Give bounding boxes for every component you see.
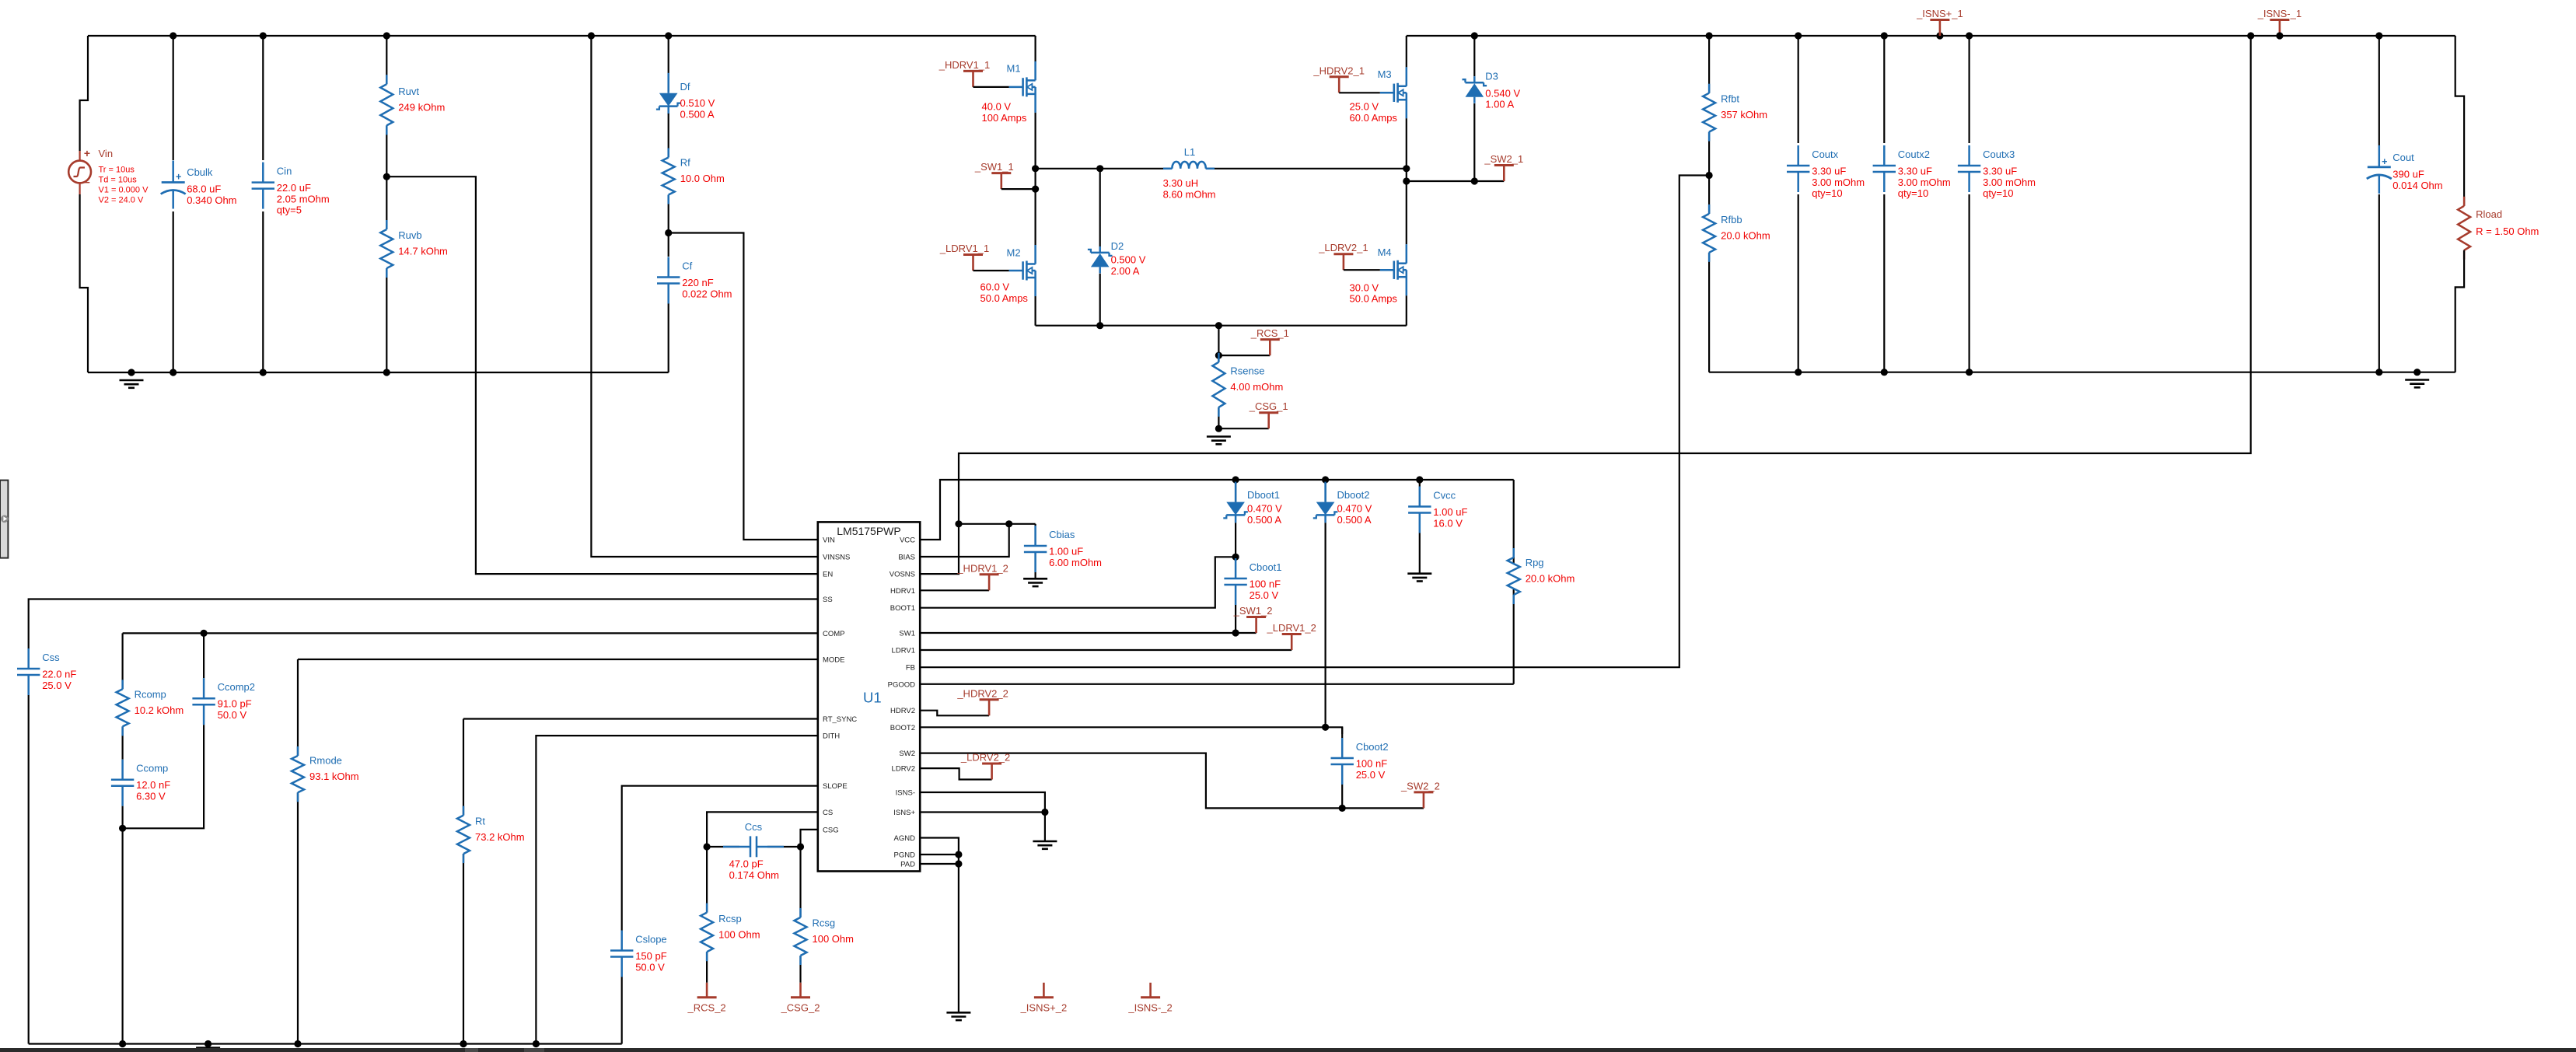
node SW2-Cboot2 junction [1339,805,1346,812]
svg-text:ISNS+: ISNS+ [893,809,915,817]
svg-text:FB: FB [906,664,915,673]
svg-text:40.0 V: 40.0 V [982,101,1012,113]
svg-text:3.30 uF: 3.30 uF [1983,166,2017,177]
svg-text:60.0 Amps: 60.0 Amps [1350,112,1398,124]
svg-text:357 kOhm: 357 kOhm [1721,109,1767,121]
wire SW2 node stub [1407,169,1505,181]
svg-text:Css: Css [42,652,60,663]
label Rt [475,815,525,843]
node D2 top junction [1096,165,1103,172]
label D3 [1485,70,1520,110]
svg-text:73.2 kOhm: 73.2 kOhm [475,831,525,843]
svg-text:_SW1_1: _SW1_1 [974,161,1014,173]
svg-text:0.540 V: 0.540 V [1485,88,1520,100]
svg-text:Dboot2: Dboot2 [1337,489,1370,501]
node CSG junction [1215,425,1222,432]
label Css [42,652,76,691]
svg-text:Coutx2: Coutx2 [1898,149,1930,160]
wire EN net to IC [386,176,818,574]
label Rfbb [1721,214,1770,242]
net flag _LDRV1_1 [939,243,1009,271]
svg-text:14.7 kOhm: 14.7 kOhm [398,246,448,257]
svg-text:0.470 V: 0.470 V [1337,503,1372,515]
svg-text:50.0 V: 50.0 V [635,961,665,973]
wire input VIN top rail [88,35,1036,37]
label M1 [982,63,1027,124]
svg-text:U1: U1 [863,690,882,706]
net flag _LDRV2_1 [1318,242,1380,270]
node output ground junctions [1795,369,2420,376]
svg-text:100 Ohm: 100 Ohm [718,928,760,940]
svg-text:50.0 V: 50.0 V [218,709,247,721]
svg-text:qty=5: qty=5 [277,204,302,216]
node BOOT2 junction [1322,724,1329,731]
label Rmode [309,755,359,783]
svg-text:+: + [84,147,90,159]
wire PGOOD net [920,683,1514,685]
svg-text:50.0 Amps: 50.0 Amps [1350,293,1398,305]
transistor M4 [1380,181,1407,326]
svg-text:ISNS-: ISNS- [896,789,915,798]
net flag _HDRV1_2 [956,562,1008,590]
svg-text:_ISNS-_1: _ISNS-_1 [2257,8,2302,19]
svg-text:Dboot1: Dboot1 [1247,489,1280,501]
label Cvcc [1433,490,1467,529]
label Ccs [729,821,779,881]
label M2 [980,247,1029,304]
wire Rcomp branch to bus [122,828,124,1043]
wire ground bus [29,1043,622,1044]
svg-text:_HDRV2_1: _HDRV2_1 [1312,65,1365,76]
diode Dboot1 [1223,480,1248,557]
net flag _ISNS-_1 [2257,8,2302,40]
label U1 [863,690,882,706]
svg-text:CS: CS [823,809,833,817]
svg-text:Tr = 10us: Tr = 10us [99,166,135,175]
svg-text:25.0 V: 25.0 V [42,680,72,691]
svg-text:68.0 uF: 68.0 uF [187,183,221,195]
svg-text:3.00 mOhm: 3.00 mOhm [1983,176,2036,188]
svg-text:_LDRV2_1: _LDRV2_1 [1318,242,1368,253]
svg-text:VCC: VCC [900,536,915,545]
ui bottom taskbar [0,1048,2576,1052]
label Coutx3 [1983,149,2036,199]
svg-text:V1 = 0.000 V: V1 = 0.000 V [99,186,149,195]
svg-text:_RCS_1: _RCS_1 [1250,327,1289,339]
svg-text:_ISNS-_2: _ISNS-_2 [1127,1001,1172,1013]
node SW1 stub junction [1032,186,1039,193]
net flag _LDRV2_2 [960,752,1010,780]
svg-text:MODE: MODE [823,656,845,665]
svg-text:Ruvt: Ruvt [398,86,419,97]
svg-text:_ISNS+_1: _ISNS+_1 [1916,8,1963,19]
svg-text:1.00 uF: 1.00 uF [1049,546,1083,557]
svg-text:VOSNS: VOSNS [890,571,915,579]
wire ISNS+ pin net [920,813,1045,842]
svg-text:0.500 V: 0.500 V [1111,254,1146,266]
wire CS net [707,812,818,847]
svg-text:VIN: VIN [823,536,835,545]
wire SS net [29,599,818,646]
svg-text:Cvcc: Cvcc [1433,490,1456,502]
label Ruvb [398,229,448,257]
svg-text:HDRV2: HDRV2 [890,707,915,715]
svg-text:SW2: SW2 [899,750,915,758]
svg-text:4.00 mOhm: 4.00 mOhm [1230,381,1283,393]
svg-text:Cboot2: Cboot2 [1356,741,1389,753]
capacitor Cbias [1024,524,1047,579]
svg-text:60.0 V: 60.0 V [980,281,1010,293]
label Coutx2 [1898,149,1951,199]
svg-text:SLOPE: SLOPE [823,782,848,791]
svg-text:_ISNS+_2: _ISNS+_2 [1020,1001,1068,1013]
svg-text:SS: SS [823,596,833,604]
svg-text:M2: M2 [1007,247,1021,259]
svg-text:LDRV1: LDRV1 [892,647,915,655]
label Rf [680,157,725,185]
svg-text:25.0 V: 25.0 V [1250,589,1279,601]
svg-text:_SW2_2: _SW2_2 [1400,780,1440,792]
label Rcsp [718,913,760,941]
svg-text:100 Ohm: 100 Ohm [813,933,854,945]
svg-text:50.0 Amps: 50.0 Amps [980,292,1029,304]
svg-text:3.30 uF: 3.30 uF [1812,166,1846,177]
svg-text:0.014 Ohm: 0.014 Ohm [2392,180,2442,191]
svg-text:47.0 pF: 47.0 pF [729,858,764,870]
wire BOOT1 net [920,557,1236,607]
node VCC rail junctions [1232,476,1424,483]
node BIAS riser junction [1005,520,1012,527]
svg-text:D3: D3 [1485,70,1498,82]
svg-text:qty=10: qty=10 [1898,187,1928,199]
svg-text:22.0 uF: 22.0 uF [277,182,311,194]
svg-text:_HDRV1_2: _HDRV1_2 [956,562,1008,574]
svg-text:100 Amps: 100 Amps [982,112,1027,124]
label M4 [1350,246,1398,305]
svg-text:Df: Df [680,81,690,93]
node Ruvt-Ruvb junction [383,173,390,180]
svg-text:Ccomp2: Ccomp2 [218,681,255,693]
wire SW1 node [1036,169,1407,189]
svg-text:R = 1.50 Ohm: R = 1.50 Ohm [2476,225,2539,237]
svg-text:PAD: PAD [900,861,915,869]
wire Rsense RCS node [1218,326,1270,355]
resistor Ruvb [380,176,393,372]
label Coutx [1812,149,1865,199]
svg-text:_HDRV2_2: _HDRV2_2 [956,687,1008,699]
net flag _SW2_2 [1400,780,1440,808]
label Cout [2392,152,2442,191]
wire LDRV1 pin row [920,649,1291,651]
wire SW2 pin net [920,753,1424,809]
svg-text:Ruvb: Ruvb [398,229,421,241]
net flag _RCS_1 [1250,327,1289,355]
svg-text:Vin: Vin [99,148,114,159]
wire output VOUT top rail [1407,35,2455,37]
wire input ground rail [88,372,669,373]
wire power bottom rail [1036,325,1407,327]
svg-text:3.30 uH: 3.30 uH [1163,177,1199,189]
node Rf-Cf junction [665,229,672,236]
svg-text:M4: M4 [1378,246,1392,258]
net flag _ISNS+_1 [1916,8,1963,36]
transistor M2 [1009,189,1036,326]
svg-text:CSG: CSG [823,826,839,834]
svg-text:249 kOhm: 249 kOhm [398,101,445,113]
svg-text:BOOT2: BOOT2 [890,724,915,732]
label Rcomp [135,688,184,716]
svg-text:Rfbb: Rfbb [1721,214,1742,225]
net flag _HDRV2_2 [956,687,1008,715]
capacitor Cin [252,36,274,372]
ui left panel toggle [0,481,9,558]
svg-text:0.340 Ohm: 0.340 Ohm [187,194,236,206]
svg-text:Rfbt: Rfbt [1721,93,1739,105]
wire SW1 pin row [920,632,1256,634]
svg-text:+: + [2382,156,2387,167]
svg-text:DITH: DITH [823,732,840,741]
svg-text:Cbulk: Cbulk [187,166,213,178]
resistor Rcsp [701,847,713,983]
svg-text:Rsense: Rsense [1230,365,1264,377]
wire CSG node [1218,428,1268,429]
label Cin [277,166,330,216]
net flag _CSG_1 [1249,400,1288,428]
net flag _ISNS-_2 [1127,983,1172,1014]
wire LDRV2 pin net [920,768,991,779]
capacitor Cout [2367,36,2392,372]
label Cbias [1049,529,1102,568]
ground Cvcc [1407,574,1431,582]
svg-text:Cslope: Cslope [635,934,666,945]
capacitor Ccomp [111,756,134,828]
svg-text:V2 = 24.0 V: V2 = 24.0 V [99,196,144,205]
wire CSG net [801,830,818,847]
node power bottom junctions [1096,322,1222,329]
ground IC AGND [946,1012,970,1020]
svg-text:22.0 nF: 22.0 nF [42,669,76,680]
svg-text:0.500 A: 0.500 A [1247,514,1281,526]
node RCS junction [1215,352,1222,359]
wire FB net [920,176,1709,668]
svg-text:Rmode: Rmode [309,755,342,767]
svg-text:0.470 V: 0.470 V [1247,503,1282,515]
svg-text:BOOT1: BOOT1 [890,604,915,613]
svg-text:6.00 mOhm: 6.00 mOhm [1049,557,1102,568]
capacitor Ccomp2 [123,633,215,828]
svg-text:100 nF: 100 nF [1356,758,1388,770]
label M3 [1350,68,1398,124]
wire VINSNS net to IC [591,36,817,557]
svg-text:−: − [84,176,90,188]
svg-text:_LDRV1_1: _LDRV1_1 [939,243,989,254]
svg-text:_RCS_2: _RCS_2 [687,1001,726,1013]
resistor Rmode [292,659,304,1044]
node Ccomp bottom junction [119,825,126,832]
svg-text:30.0 V: 30.0 V [1350,281,1379,293]
svg-text:RT_SYNC: RT_SYNC [823,715,857,724]
resistor Rcsg [795,847,807,983]
label D2 [1111,240,1146,277]
label Ccomp2 [218,681,255,721]
wire VCC rail [920,480,1514,540]
label Vin [99,148,149,205]
wire BOOT2 net [920,727,1342,734]
net flag _SW1_1 [974,161,1036,189]
label Ruvt [398,86,445,114]
svg-text:_HDRV1_1: _HDRV1_1 [938,59,991,71]
label Rfbt [1721,93,1767,121]
node input rail junctions [170,32,672,39]
ground Cbias [1023,578,1047,586]
svg-text:12.0 nF: 12.0 nF [136,779,170,791]
svg-text:Rt: Rt [475,815,485,827]
label Cboot1 [1250,561,1282,601]
svg-text:Rpg: Rpg [1526,557,1544,568]
svg-text:220 nF: 220 nF [682,277,714,288]
wire RT_SYNC net [463,718,818,719]
node output rail junctions [1471,32,2383,39]
net flag _HDRV2_1 [1312,65,1379,93]
svg-text:2.00 A: 2.00 A [1111,265,1140,277]
svg-text:_SW2_1: _SW2_1 [1484,153,1523,165]
wire HDRV2 pin net [920,711,989,716]
label Cbulk [187,166,236,206]
label Rpg [1526,557,1575,585]
svg-text:0.174 Ohm: 0.174 Ohm [729,869,779,881]
resistor Rt [457,719,470,1044]
ground Rsense [1207,437,1231,445]
net flag _SW1_2 [1233,605,1273,633]
transistor M1 [1009,36,1036,169]
svg-text:25.0 V: 25.0 V [1356,769,1386,781]
capacitor Coutx3 [1958,36,1980,372]
svg-text:1.00 uF: 1.00 uF [1433,506,1467,518]
ground output rail [2405,380,2429,388]
node Ccs junctions [704,843,805,850]
node VOSNS-BIAS tee [955,520,962,527]
svg-text:150 pF: 150 pF [635,950,667,962]
svg-text:Cin: Cin [277,166,292,177]
svg-text:Rload: Rload [2476,208,2502,220]
capacitor Cslope [610,931,633,1044]
node SW2 lower junction [1403,177,1478,184]
ground bus ground symbol [196,1048,220,1052]
svg-text:3.00 mOhm: 3.00 mOhm [1898,176,1951,188]
label L1 [1163,146,1216,200]
svg-text:3.30 uF: 3.30 uF [1898,166,1932,177]
capacitor Ccs [707,836,800,857]
node PGND PAD junctions [955,851,962,867]
svg-text:EN: EN [823,571,833,579]
label Dboot1 [1247,489,1282,526]
wire COMP net [123,632,818,634]
label Rload [2476,208,2539,237]
svg-text:Cbias: Cbias [1049,529,1075,540]
svg-text:_LDRV2_2: _LDRV2_2 [960,752,1010,764]
label Dboot2 [1337,489,1372,526]
svg-text:SW1: SW1 [899,630,915,638]
node ISNS junction [1041,809,1048,816]
svg-text:BIAS: BIAS [898,554,915,562]
svg-text:M1: M1 [1007,63,1021,75]
ground ISNS [1033,841,1057,849]
wire DITH net [536,736,817,1043]
capacitor Coutx2 [1873,36,1896,372]
wire VOSNS net (VOUT sense) [920,36,2251,574]
resistor Rcomp [117,633,129,756]
svg-text:Cout: Cout [2392,152,2414,163]
label Cf [682,260,732,300]
svg-text:Td = 10us: Td = 10us [99,176,138,185]
capacitor Css [17,645,40,1044]
wire output ground rail [1709,372,2455,373]
svg-text:16.0 V: 16.0 V [1433,517,1463,529]
label Df [680,81,715,120]
capacitor Cvcc [1408,480,1431,574]
node SW1 pin junction [1232,629,1239,636]
svg-text:91.0 pF: 91.0 pF [218,698,252,710]
net flag _RCS_2 [687,983,726,1014]
resistor Rpg [1508,480,1520,684]
svg-text:+: + [176,172,181,183]
node input ground junctions [128,369,390,376]
svg-text:HDRV1: HDRV1 [890,587,915,596]
label Rsense [1230,365,1283,393]
net flag _ISNS+_2 [1020,983,1068,1014]
capacitor Coutx [1787,36,1809,372]
svg-text:AGND: AGND [894,834,916,843]
net flag _LDRV1_2 [1267,622,1316,650]
resistor Rfbb [1703,176,1715,372]
diode Df [656,36,681,114]
svg-text:Ccomp: Ccomp [136,763,168,774]
label Cboot2 [1356,741,1389,781]
transistor M3 [1380,36,1407,169]
capacitor Cbulk [161,36,186,372]
node BOOT1 junction [1232,554,1239,561]
svg-text:Cboot1: Cboot1 [1250,561,1282,573]
resistor Rload [2455,36,2470,372]
wire ISNS- pin net [920,792,1045,813]
net flag _SW2_1 [1484,153,1523,181]
net flag _CSG_2 [781,983,820,1014]
svg-text:Rf: Rf [680,157,690,169]
svg-text:Cf: Cf [682,260,692,272]
svg-text:_CSG_2: _CSG_2 [781,1001,820,1013]
svg-text:93.1 kOhm: 93.1 kOhm [309,771,359,782]
svg-text:0.510 V: 0.510 V [680,97,715,109]
svg-text:_CSG_1: _CSG_1 [1249,400,1288,412]
svg-text:20.0 kOhm: 20.0 kOhm [1526,573,1575,585]
op-amp U1 (IC LM5175PWP) [818,522,920,871]
ground input rail [120,380,144,388]
svg-text:COMP: COMP [823,630,845,638]
svg-text:0.022 Ohm: 0.022 Ohm [682,288,732,299]
svg-text:VINSNS: VINSNS [823,554,850,562]
diode D3 [1463,36,1487,181]
wire VIN pin net (Cf node to IC VIN) [669,233,818,540]
svg-text:qty=10: qty=10 [1983,187,2013,199]
capacitor Cf [657,233,680,373]
node FB divider junction [1706,172,1713,179]
svg-text:0.500 A: 0.500 A [680,108,715,120]
resistor Ruvt [380,36,393,176]
node SW1 junction at M1 source [1032,165,1039,172]
svg-text:10.0 Ohm: 10.0 Ohm [680,173,725,184]
svg-text:20.0 kOhm: 20.0 kOhm [1721,229,1770,241]
wire SLOPE net [622,786,818,931]
